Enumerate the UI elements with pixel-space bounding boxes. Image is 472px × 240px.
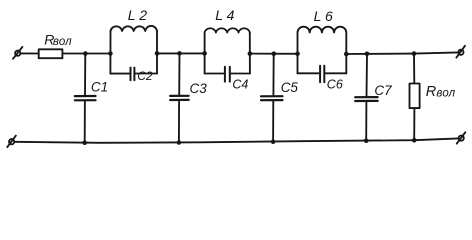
- tank2 bottom wire right part: [230, 73, 250, 75]
- bottom rail wire: [14, 138, 458, 142]
- wire R2 top lead: [413, 54, 415, 84]
- node C1 top junction: [83, 51, 88, 56]
- svg-text:C3: C3: [190, 81, 208, 96]
- inductor L2 coil: [111, 26, 158, 31]
- svg-text:C2: C2: [137, 69, 153, 83]
- wire tank3 to output terminal: [346, 52, 458, 54]
- wire tank1 to tank2: [157, 52, 205, 54]
- node C7 bottom junction: [364, 139, 369, 144]
- wire tank2 to tank3: [250, 53, 298, 55]
- svg-text:L 2: L 2: [128, 7, 147, 23]
- node C5 top junction: [272, 51, 277, 56]
- svg-text:C6: C6: [327, 77, 343, 91]
- svg-text:L 6: L 6: [314, 8, 333, 24]
- label R2 Rвол: [426, 84, 456, 100]
- svg-text:вол: вол: [53, 36, 72, 48]
- node tank3 right junction: [344, 52, 349, 57]
- svg-text:R: R: [426, 84, 437, 100]
- capacitor C2 plates: [130, 68, 132, 81]
- svg-text:вол: вол: [436, 87, 455, 99]
- capacitor C3: [178, 53, 180, 95]
- node tank2 right junction: [248, 51, 253, 56]
- node R2 top junction: [412, 51, 417, 56]
- tank3 bottom wire left part: [298, 72, 320, 74]
- tank1 bottom wire left part: [110, 73, 130, 75]
- resistor R1: [39, 49, 63, 58]
- node tank2 left junction: [202, 51, 207, 56]
- svg-text:C7: C7: [374, 83, 392, 98]
- capacitor C7: [366, 54, 369, 97]
- tank1 right edge wire: [156, 31, 158, 74]
- node tank1 left junction: [108, 51, 113, 56]
- svg-text:C4: C4: [232, 78, 248, 92]
- terminal input bottom: [9, 139, 14, 144]
- capacitor C6 plates: [319, 66, 321, 83]
- tank3 right edge wire: [345, 33, 347, 74]
- inductor L4 coil: [205, 28, 250, 32]
- label R1 Rвол: [44, 31, 72, 47]
- capacitor C5: [272, 54, 274, 96]
- svg-text:C1: C1: [91, 80, 108, 95]
- node tank3 left junction: [295, 52, 300, 57]
- node C7 top junction: [365, 52, 370, 57]
- capacitor C4 plates: [224, 67, 226, 82]
- terminal output top: [458, 50, 463, 55]
- terminal input top: [15, 51, 20, 56]
- wire input to R1: [20, 52, 38, 54]
- inductor L6 coil: [298, 27, 347, 33]
- tank2 left edge wire: [204, 33, 206, 74]
- tank2 right edge wire: [249, 33, 251, 74]
- wire R2 bottom lead: [413, 108, 415, 140]
- tank1 left edge wire: [109, 31, 111, 74]
- tank3 bottom wire right part: [325, 72, 347, 74]
- resistor R2: [410, 84, 420, 109]
- tank1 bottom wire right part: [135, 73, 157, 75]
- node R2 bottom junction: [412, 138, 417, 143]
- node tank1 right junction: [155, 51, 160, 56]
- svg-text:L 4: L 4: [215, 7, 234, 23]
- node C5 bottom junction: [271, 140, 276, 145]
- node C3 top junction: [177, 51, 182, 56]
- node C3 bottom junction: [177, 140, 182, 145]
- svg-text:C5: C5: [281, 80, 299, 95]
- tank2 bottom wire left part: [205, 73, 225, 75]
- terminal output bottom: [459, 136, 464, 141]
- capacitor C1: [84, 54, 86, 96]
- tank3 left edge wire: [297, 33, 299, 74]
- node C1 bottom junction: [82, 140, 87, 145]
- wire R1 to tank1: [62, 53, 110, 55]
